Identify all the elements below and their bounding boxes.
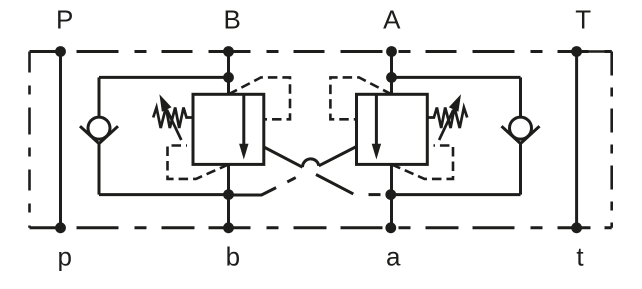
valve V1 flow arrow (242, 95, 245, 146)
wire check branch right top (392, 76, 521, 79)
svg-text:A: A (383, 5, 401, 35)
node A pilot junction (386, 72, 397, 83)
wire B lower (227, 164, 230, 227)
svg-text:T: T (575, 5, 591, 35)
check valve CV1 seat (80, 126, 118, 143)
node A top (386, 46, 397, 57)
svg-text:a: a (386, 242, 401, 272)
valve V2 spring-side drain pilot (dashed) (392, 146, 454, 179)
node b bottom (223, 222, 234, 233)
wire check branch right bottom (392, 193, 521, 196)
cross pilot line V2-to-b (long-dash segments with hop) (319, 147, 357, 166)
enclosure boundary left (dash-dot) (28, 52, 31, 228)
node b lower junction (223, 189, 234, 200)
valve V1 adjustment arrow (167, 110, 181, 140)
wire check branch left bottom (99, 193, 229, 196)
wire P vertical (59, 52, 62, 228)
counterbalance valve V1 body (193, 94, 264, 164)
valve V1 internal pilot (dashed) (229, 77, 291, 119)
svg-text:p: p (57, 242, 71, 272)
crossing hop arc (302, 159, 318, 167)
check valve CV1 ball (88, 117, 110, 139)
node a lower junction (385, 189, 396, 200)
cross pilot line V1-to-a (long-dash segments) (264, 147, 303, 167)
svg-text:t: t (576, 242, 584, 272)
valve V1 spring-side drain pilot (dashed) (168, 146, 229, 179)
node t bottom (571, 222, 582, 233)
svg-text:b: b (226, 242, 240, 272)
check valve CV2 seat (502, 126, 540, 143)
node B top (223, 46, 234, 57)
wire check branch left top (99, 76, 229, 79)
wire A upper (390, 52, 393, 95)
node B pilot junction (223, 72, 234, 83)
valve V2 spring (427, 108, 467, 129)
wire T vertical (575, 52, 578, 228)
node P top (55, 46, 66, 57)
node a bottom (385, 222, 396, 233)
enclosure boundary top-right solid segment (577, 50, 612, 53)
wire A lower (390, 164, 393, 227)
valve V2 internal pilot (dashed) (330, 77, 391, 119)
svg-text:B: B (224, 5, 241, 35)
valve V2 flow arrow (375, 95, 378, 146)
enclosure boundary right (dash-dot) (610, 52, 613, 228)
counterbalance valve V2 body (357, 94, 428, 164)
wire check branch right vertical (519, 77, 522, 194)
wire B upper (227, 52, 230, 95)
valve V1 spring (153, 108, 193, 129)
check valve CV2 ball (510, 117, 532, 139)
enclosure boundary bottom (dash-dot) (30, 226, 612, 229)
node T top (571, 46, 582, 57)
enclosure boundary top (dash-dot) (30, 50, 612, 53)
node p bottom (55, 222, 66, 233)
svg-text:P: P (56, 5, 73, 35)
valve V2 adjustment arrow (439, 110, 453, 140)
wire check branch left vertical (98, 77, 101, 194)
